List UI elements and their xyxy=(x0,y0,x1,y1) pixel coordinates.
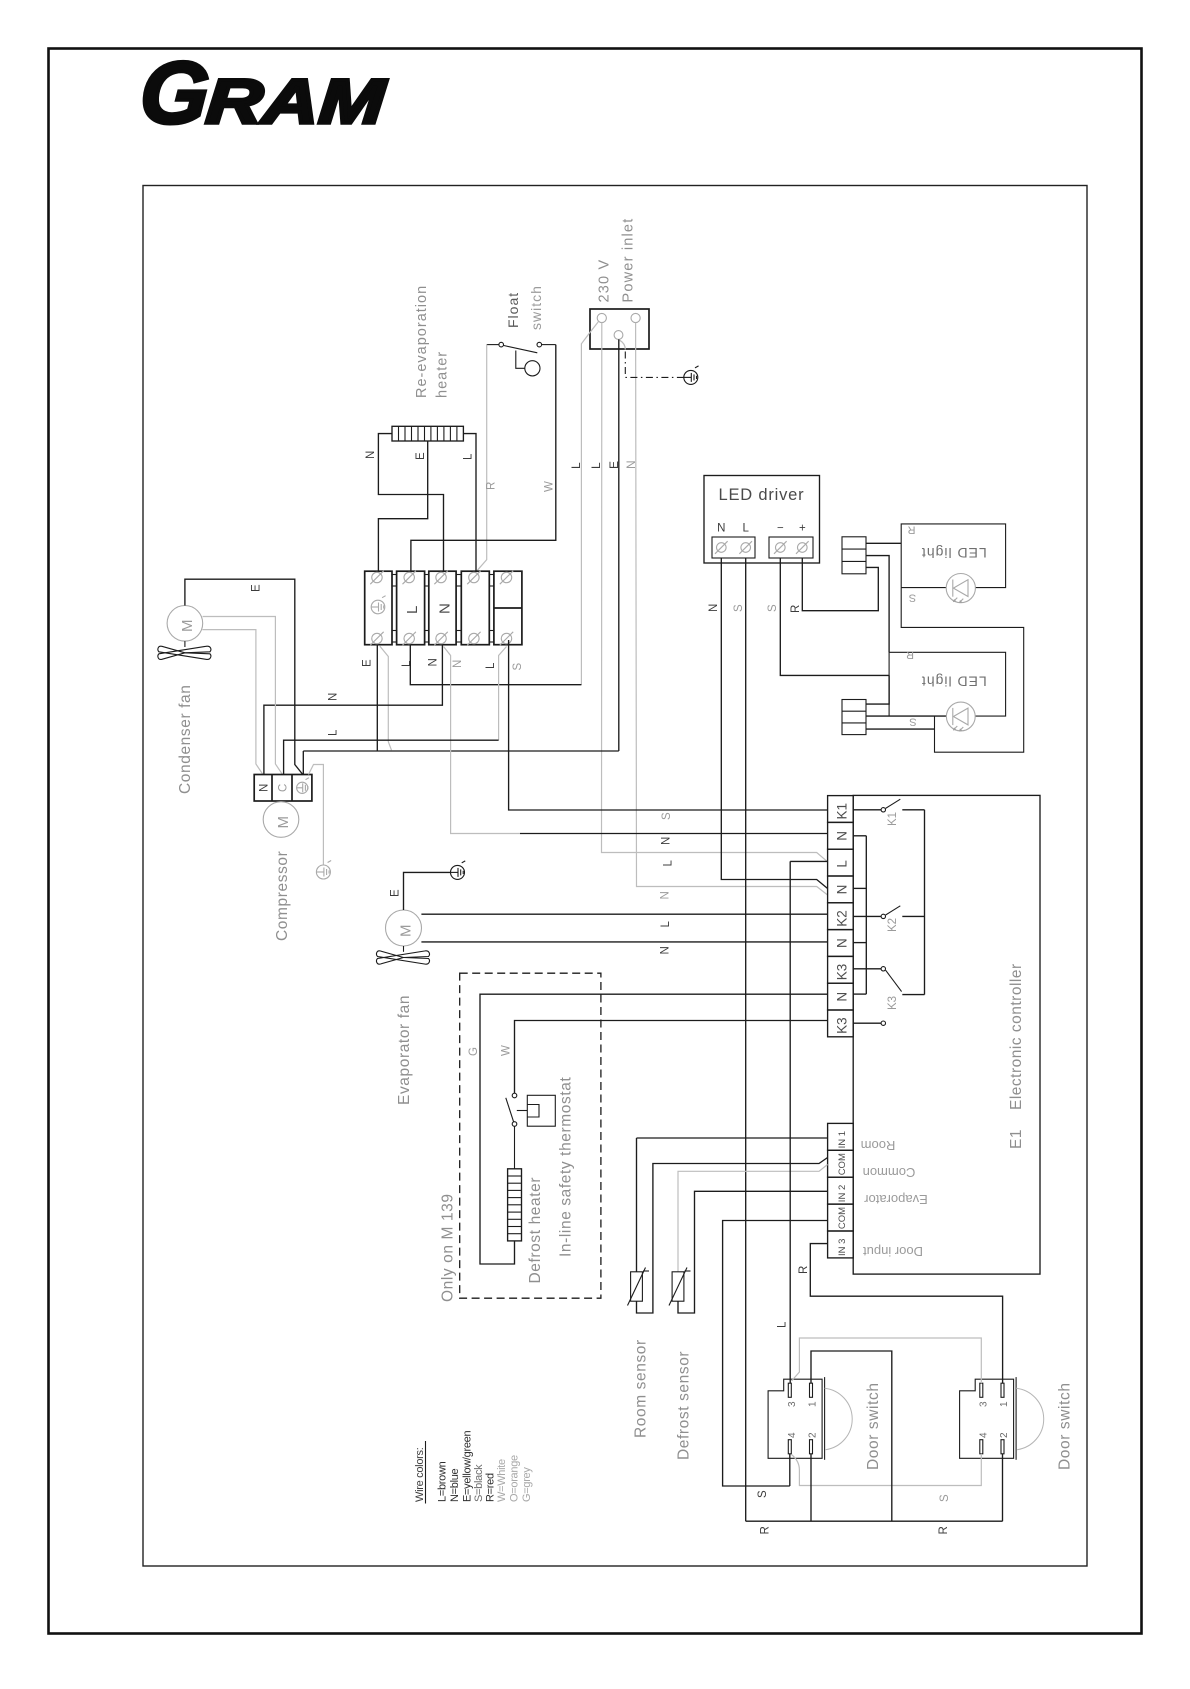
svg-text:E: E xyxy=(251,584,263,592)
heater R1 re-evaporation xyxy=(392,426,463,441)
LED driver terminal box NL xyxy=(712,537,755,558)
wire DS1 pin2 down xyxy=(810,1454,812,1521)
wire L evaporator fan to controller K2 xyxy=(421,913,827,915)
wire N evaporator fan to controller N xyxy=(421,941,827,943)
svg-text:L: L xyxy=(835,860,850,868)
motor M2 compressor xyxy=(263,802,299,838)
LED light 2 box xyxy=(889,652,1006,716)
svg-text:4: 4 xyxy=(978,1432,989,1438)
wire E bus horizontal xyxy=(303,750,619,752)
LED light 1 box xyxy=(901,524,1005,588)
relay contact K1 xyxy=(853,809,881,811)
svg-text:COM: COM xyxy=(837,1153,848,1175)
wire E gray parallel from block1 xyxy=(380,646,392,750)
svg-text:L: L xyxy=(589,462,603,469)
svg-text:N: N xyxy=(835,938,850,948)
wire E condenser fan xyxy=(185,579,303,774)
ground symbol evaporator fan xyxy=(451,865,465,879)
svg-text:4: 4 xyxy=(787,1432,798,1438)
svg-text:K2: K2 xyxy=(887,918,899,932)
thermistor B2 defrost sensor xyxy=(672,1272,684,1301)
ground symbol compressor cell xyxy=(297,782,308,793)
svg-text:−: − xyxy=(777,523,784,535)
relay contact K2 xyxy=(853,915,881,917)
svg-text:N: N xyxy=(452,660,464,668)
svg-text:Electronic controller: Electronic controller xyxy=(1008,963,1025,1110)
controller relay terminal cells xyxy=(828,796,854,823)
wire L2 gray power inlet to controller L xyxy=(602,323,828,862)
svg-text:Evaporator: Evaporator xyxy=(864,1192,928,1207)
wire connector1 pin2 to LED light2 xyxy=(866,556,889,653)
wire N to controller cell N xyxy=(520,833,828,835)
wire gray condenser fan to C xyxy=(203,617,283,775)
svg-text:LED light: LED light xyxy=(921,674,987,690)
svg-text:LED light: LED light xyxy=(921,545,987,561)
wire gray hook to earth xyxy=(620,340,626,349)
svg-text:R: R xyxy=(486,482,498,490)
svg-text:W=White: W=White xyxy=(496,1459,508,1502)
svg-text:COM: COM xyxy=(837,1207,848,1229)
svg-text:E: E xyxy=(362,659,374,667)
svg-text:Common: Common xyxy=(863,1165,916,1180)
svg-text:Compressor: Compressor xyxy=(274,851,291,941)
svg-text:N: N xyxy=(835,885,850,895)
svg-text:K3: K3 xyxy=(835,964,850,981)
relay contact K3 xyxy=(853,968,881,970)
ground symbol at power inlet xyxy=(684,370,698,384)
wire plus LED driver to connector xyxy=(802,558,878,611)
svg-text:S: S xyxy=(767,604,779,612)
svg-text:switch: switch xyxy=(528,285,544,330)
svg-text:R: R xyxy=(938,1526,950,1534)
svg-text:2: 2 xyxy=(999,1432,1010,1438)
wire room sensor to COM xyxy=(637,1158,828,1314)
wire E down to compressor earth cell xyxy=(302,751,304,775)
svg-text:R: R xyxy=(798,1266,810,1274)
LED driver terminal box -+ xyxy=(769,537,813,558)
svg-text:1: 1 xyxy=(807,1401,818,1407)
connector LED light 1 xyxy=(842,537,866,574)
ground symbol below compressor xyxy=(316,865,330,879)
svg-text:L: L xyxy=(485,662,497,669)
wire room sensor to IN1 xyxy=(637,1137,828,1139)
wire L to compressor C xyxy=(284,740,499,774)
svg-text:E: E xyxy=(390,889,402,897)
svg-text:3: 3 xyxy=(787,1401,798,1407)
heater R2 defrost heater xyxy=(508,1169,522,1241)
wire connector1 pin1 to LED light1 xyxy=(866,542,901,544)
wire L1 gray from power inlet xyxy=(581,333,590,685)
wire gray S door bottoms xyxy=(792,1454,982,1486)
motor M3 evaporator fan xyxy=(386,910,422,946)
svg-text:Condenser fan: Condenser fan xyxy=(177,685,194,794)
controller input terminal cells xyxy=(828,1123,854,1150)
svg-text:N: N xyxy=(437,603,454,614)
wire G defrost heater to controller xyxy=(480,994,828,1264)
svg-text:Defrost sensor: Defrost sensor xyxy=(676,1351,693,1460)
wire black jumper DS1 xyxy=(811,1351,892,1521)
wire W black float switch to terminal L xyxy=(411,345,556,572)
motor M1 condenser fan xyxy=(167,606,203,642)
svg-text:IN 3: IN 3 xyxy=(837,1239,848,1256)
wire DS2 pin2 down xyxy=(1002,1454,1004,1521)
wire S block5 to controller K1 xyxy=(509,640,828,810)
svg-text:1: 1 xyxy=(999,1401,1010,1407)
svg-text:M: M xyxy=(398,925,415,938)
dashed box Only on M 139 xyxy=(460,973,601,1298)
thermistor B1 room sensor xyxy=(631,1272,643,1301)
wire heater L to terminal block 4 xyxy=(463,434,476,572)
svg-text:Defrost heater: Defrost heater xyxy=(527,1177,544,1284)
wire defrost sensor gray to COM xyxy=(678,1165,828,1272)
wire heater E to terminal block 1 xyxy=(378,441,427,571)
thermostat F1 in-line safety xyxy=(514,1126,516,1169)
wire defrost sensor to IN2 xyxy=(678,1191,828,1313)
wire heater N to terminal block 3 xyxy=(378,434,443,572)
svg-text:Re-evaporation: Re-evaporation xyxy=(414,285,430,398)
svg-text:L: L xyxy=(663,860,675,867)
switch S3 door switch 1 xyxy=(768,1379,822,1458)
svg-text:L: L xyxy=(660,921,672,928)
svg-text:S: S xyxy=(909,592,916,604)
svg-text:S: S xyxy=(909,716,916,728)
wire earth dash-dot from power inlet xyxy=(625,352,683,378)
svg-text:N: N xyxy=(835,992,850,1002)
wire R IN3 to door switch 2 xyxy=(810,1244,1002,1384)
svg-text:G=grey: G=grey xyxy=(521,1467,533,1502)
svg-text:K2: K2 xyxy=(835,910,850,927)
connector LED light 2 xyxy=(842,700,866,735)
svg-text:E=yellow/green: E=yellow/green xyxy=(461,1431,473,1503)
svg-text:L: L xyxy=(463,453,475,460)
svg-text:N: N xyxy=(259,784,271,792)
GRAM logo xyxy=(137,43,390,142)
wire connector2 pin3 xyxy=(866,728,935,730)
relay contact spare xyxy=(853,1022,881,1024)
svg-text:230 V: 230 V xyxy=(597,259,613,303)
wire DS1 pin4 down to S xyxy=(789,1454,791,1486)
terminal block X1 (5 poles) xyxy=(365,571,392,645)
compressor terminal box xyxy=(254,775,312,802)
svg-text:2: 2 xyxy=(807,1432,818,1438)
svg-text:E1: E1 xyxy=(1008,1129,1025,1149)
svg-text:W: W xyxy=(501,1045,513,1056)
wire gray condenser fan to N xyxy=(202,630,263,775)
ground symbol in terminal block 1 xyxy=(371,600,385,614)
svg-text:R: R xyxy=(906,649,914,661)
switch S4 door switch 2 xyxy=(960,1379,1014,1458)
wire L gray block5 down xyxy=(499,647,507,741)
wire N LED driver to controller xyxy=(721,558,827,889)
wire N gray power inlet to controller N xyxy=(636,323,828,895)
svg-text:L: L xyxy=(328,729,340,736)
svg-text:N: N xyxy=(624,460,638,469)
svg-text:N: N xyxy=(365,451,377,459)
svg-text:N: N xyxy=(661,837,673,845)
svg-text:S: S xyxy=(733,604,745,612)
wire L controller to door switch 1 xyxy=(790,860,827,862)
condenser fan blades xyxy=(184,641,186,647)
svg-text:Door switch: Door switch xyxy=(1057,1382,1074,1470)
wire COM2 to door switches xyxy=(723,1221,828,1487)
svg-text:In-line safety thermostat: In-line safety thermostat xyxy=(558,1077,575,1257)
svg-text:O=orange: O=orange xyxy=(509,1455,521,1502)
svg-text:Evaporator fan: Evaporator fan xyxy=(396,995,413,1105)
wire gray door series xyxy=(792,1338,982,1383)
wire N gray block3 to controller xyxy=(444,647,521,834)
svg-text:C: C xyxy=(278,784,290,792)
svg-text:S: S xyxy=(512,663,524,671)
svg-text:L: L xyxy=(401,660,413,667)
svg-text:E: E xyxy=(415,452,427,460)
svg-text:K1: K1 xyxy=(835,803,850,820)
svg-text:K1: K1 xyxy=(887,812,899,826)
float switch S2 xyxy=(487,344,499,346)
wire E evaporator fan to ground xyxy=(404,872,451,910)
svg-text:L: L xyxy=(569,462,583,469)
wire relay bus vertical xyxy=(924,810,926,995)
wire bottom R bus xyxy=(746,1520,1003,1522)
svg-text:N: N xyxy=(717,523,725,535)
wire connector2 pin1 xyxy=(866,675,889,704)
wire R gray float switch to terminal xyxy=(477,345,487,572)
svg-text:heater: heater xyxy=(435,351,451,398)
svg-text:N: N xyxy=(428,658,440,666)
svg-text:N: N xyxy=(835,831,850,841)
svg-text:IN 1: IN 1 xyxy=(837,1131,848,1148)
svg-text:M: M xyxy=(179,620,196,633)
wire L block2 to power inlet L xyxy=(410,645,581,685)
svg-text:L: L xyxy=(404,606,421,614)
wire minus LED driver to LED light 2 xyxy=(780,558,889,675)
wire L LED driver to door switches xyxy=(745,558,747,1521)
svg-text:S: S xyxy=(661,812,673,820)
wire N block3 to compressor xyxy=(264,645,443,775)
svg-text:L: L xyxy=(742,523,749,535)
svg-text:L: L xyxy=(777,1321,789,1328)
evaporator fan blades xyxy=(403,946,405,952)
connector J1 230V power inlet xyxy=(590,309,649,349)
svg-text:R: R xyxy=(907,524,915,536)
svg-text:E: E xyxy=(607,461,621,469)
svg-text:+: + xyxy=(799,523,806,535)
wire E black power inlet down xyxy=(618,339,620,751)
svg-text:L=brown: L=brown xyxy=(437,1461,449,1502)
svg-text:N: N xyxy=(660,946,672,954)
svg-text:Wire colors:: Wire colors: xyxy=(414,1447,426,1502)
svg-text:N: N xyxy=(708,604,720,612)
wire S loop LED1 to LED2 xyxy=(901,588,1024,753)
svg-text:S: S xyxy=(757,1490,769,1498)
svg-text:3: 3 xyxy=(978,1401,989,1407)
svg-text:N: N xyxy=(660,891,672,899)
wire E terminal block1 to junction xyxy=(376,645,378,751)
svg-text:R: R xyxy=(760,1526,772,1534)
svg-text:Door switch: Door switch xyxy=(865,1382,882,1470)
wire gray compressor earth xyxy=(309,765,324,865)
svg-text:W: W xyxy=(544,481,556,492)
svg-text:LED driver: LED driver xyxy=(719,486,805,504)
svg-text:Only on M 139: Only on M 139 xyxy=(440,1193,457,1302)
LED D1 symbol xyxy=(946,574,975,603)
svg-text:S=black: S=black xyxy=(473,1464,485,1502)
svg-text:N: N xyxy=(328,693,340,701)
schematic inner frame xyxy=(143,186,1087,1567)
svg-text:S: S xyxy=(939,1494,951,1502)
svg-text:R: R xyxy=(790,605,802,613)
electronic controller E1 box xyxy=(853,795,1040,1274)
svg-text:R=red: R=red xyxy=(485,1473,497,1502)
wire W thermostat to controller K3 xyxy=(515,1021,828,1094)
svg-text:K3: K3 xyxy=(835,1017,850,1034)
svg-text:M: M xyxy=(275,816,292,829)
svg-text:N=blue: N=blue xyxy=(449,1468,461,1502)
svg-text:Room: Room xyxy=(861,1138,896,1153)
svg-text:Door input: Door input xyxy=(863,1244,923,1259)
svg-text:Room sensor: Room sensor xyxy=(633,1339,650,1438)
LED driver box U2 xyxy=(704,476,820,564)
svg-text:Power inlet: Power inlet xyxy=(621,218,637,303)
wire N bus stubs xyxy=(853,835,866,837)
LED D2 symbol xyxy=(946,702,975,731)
wire connector2 pin2 to LED2 symbol xyxy=(866,715,946,717)
svg-text:K3: K3 xyxy=(887,996,899,1010)
svg-text:Float: Float xyxy=(505,292,521,328)
svg-text:G: G xyxy=(468,1047,480,1056)
svg-text:IN 2: IN 2 xyxy=(837,1185,848,1202)
